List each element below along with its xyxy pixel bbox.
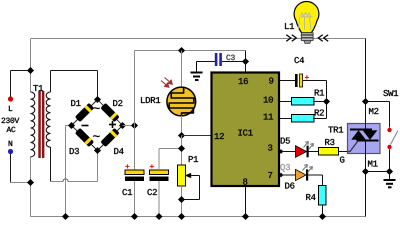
capacitor C3 — [197, 53, 246, 66]
label T1 — [33, 85, 43, 91]
wire to pin 12 — [182, 135, 211, 137]
capacitor C1 — [125, 164, 144, 216]
op-amp IC1 body — [212, 73, 280, 187]
label N — [9, 141, 13, 146]
label LDR1 — [141, 97, 160, 103]
wire pin8 lead — [245, 186, 247, 217]
switch SW1 — [366, 102, 399, 172]
label TR1 — [328, 127, 343, 133]
LED D6 — [279, 165, 323, 186]
label AC — [7, 127, 16, 132]
label P1 — [189, 156, 198, 162]
wire L terminal branch — [11, 71, 31, 98]
label IC1 — [238, 129, 252, 135]
label R3 — [325, 139, 334, 145]
diode D1 — [75, 103, 94, 122]
node C1 bottom — [131, 213, 138, 220]
node bridge bottom vertex — [94, 147, 101, 154]
capacitor C4 — [280, 74, 327, 119]
LDR1 light arrows — [161, 78, 172, 88]
pin 10 — [264, 96, 273, 102]
node plus rail junction — [131, 122, 138, 129]
wire M1 lead — [365, 142, 367, 217]
capacitor C2 — [150, 149, 182, 217]
transformer T1 core — [38, 91, 44, 158]
transformer T1 primary winding — [31, 92, 35, 157]
wire N terminal branch — [10, 154, 12, 183]
bridge rectifier edges — [72, 100, 123, 151]
pin 11 — [264, 114, 273, 120]
node M1 junction — [362, 168, 369, 175]
label R1 — [315, 90, 324, 96]
node M2 junction — [362, 98, 369, 105]
wire LDR bottom lead — [181, 116, 183, 136]
diode D3 — [75, 128, 94, 147]
lamp L1 bulb — [294, 2, 319, 44]
label Q3 — [280, 164, 289, 172]
LDR1 body — [167, 87, 196, 116]
label D1 — [71, 100, 80, 106]
label SW1 — [383, 90, 398, 96]
node C3 pin16 junction — [242, 58, 249, 65]
label R2 — [315, 109, 324, 115]
pin 12 — [215, 133, 224, 139]
resistor R3 — [319, 148, 339, 156]
wire left rail below transformer — [30, 157, 32, 217]
wire bottom rail — [31, 216, 366, 218]
label M2 — [369, 108, 378, 114]
LDR1 serpentine track — [169, 88, 194, 116]
node bridge right vertex — [119, 122, 126, 129]
resistor R4 — [319, 186, 327, 217]
terminal L red dot — [8, 96, 13, 101]
label D6 — [285, 182, 294, 188]
label C3 — [226, 55, 234, 60]
label C1 — [122, 189, 132, 195]
pin 7 — [268, 172, 272, 178]
wire LDR top lead — [181, 51, 183, 88]
pin 3 — [268, 144, 272, 150]
label D4 — [114, 148, 123, 154]
wire pin16 lead — [245, 51, 247, 73]
label D3 — [70, 148, 79, 154]
wire secondary bottom lead — [50, 147, 52, 182]
diode D2 — [100, 103, 119, 122]
node bridge minus bottom — [62, 213, 69, 220]
node C2 P1 junction — [178, 145, 185, 152]
node LDR top junction — [178, 47, 185, 54]
triac TR1 body — [348, 124, 381, 154]
potentiometer P1 — [178, 165, 200, 217]
node C2 bottom — [155, 213, 162, 220]
transformer T1 secondary winding — [46, 92, 50, 147]
label L1 — [285, 23, 294, 29]
node ground junction — [386, 168, 393, 175]
wire top horizontal L rail — [31, 39, 366, 93]
LED D5 — [279, 142, 319, 158]
resistor R1 — [280, 98, 327, 106]
bridge symbol plus — [109, 121, 116, 128]
node P1 wiper junction — [178, 196, 185, 203]
diode D4 — [100, 128, 119, 147]
terminal N blue dot — [8, 149, 13, 154]
node C4 R1 R2 junction — [323, 98, 330, 105]
wire bridge plus to V rail — [123, 125, 135, 127]
label G — [340, 156, 344, 162]
wire LDR node down — [181, 136, 183, 166]
pin 16 — [239, 78, 248, 84]
label D5 — [281, 138, 290, 144]
bridge symbol ~ bottom — [93, 135, 99, 137]
label C4 — [294, 57, 304, 63]
node pin12 junction — [178, 132, 185, 139]
pin 9 — [269, 77, 273, 83]
wire V+ top horizontal — [135, 50, 246, 52]
ground near C3 — [196, 62, 198, 72]
pin 8 — [243, 178, 247, 184]
node bridge left vertex — [68, 122, 75, 129]
ground right — [384, 172, 396, 189]
node bridge top vertex — [94, 96, 101, 103]
node junction left rail y70 — [27, 67, 34, 74]
label 230V — [2, 118, 20, 123]
label R4 — [306, 194, 315, 200]
bridge symbol minus — [82, 125, 89, 127]
node pin8 bottom — [242, 213, 249, 220]
wire secondary top lead to bridge — [51, 71, 98, 100]
bridge symbol ~ top — [93, 107, 99, 109]
label D2 — [113, 100, 122, 106]
node junction left rail y182 — [27, 179, 34, 186]
node P1 bottom — [178, 213, 185, 220]
label M1 — [368, 161, 377, 167]
lamp rays chevrons — [286, 35, 328, 42]
wire M1 to ground — [366, 171, 390, 173]
wire M2 lead — [365, 102, 367, 130]
node R4 bottom — [319, 213, 326, 220]
label C2 — [147, 189, 156, 195]
label L — [9, 106, 12, 111]
wire lamp drop — [365, 39, 367, 130]
wire bridge minus drop — [66, 126, 72, 217]
resistor R2 — [280, 115, 327, 123]
wire V+ rail vertical — [134, 51, 136, 171]
